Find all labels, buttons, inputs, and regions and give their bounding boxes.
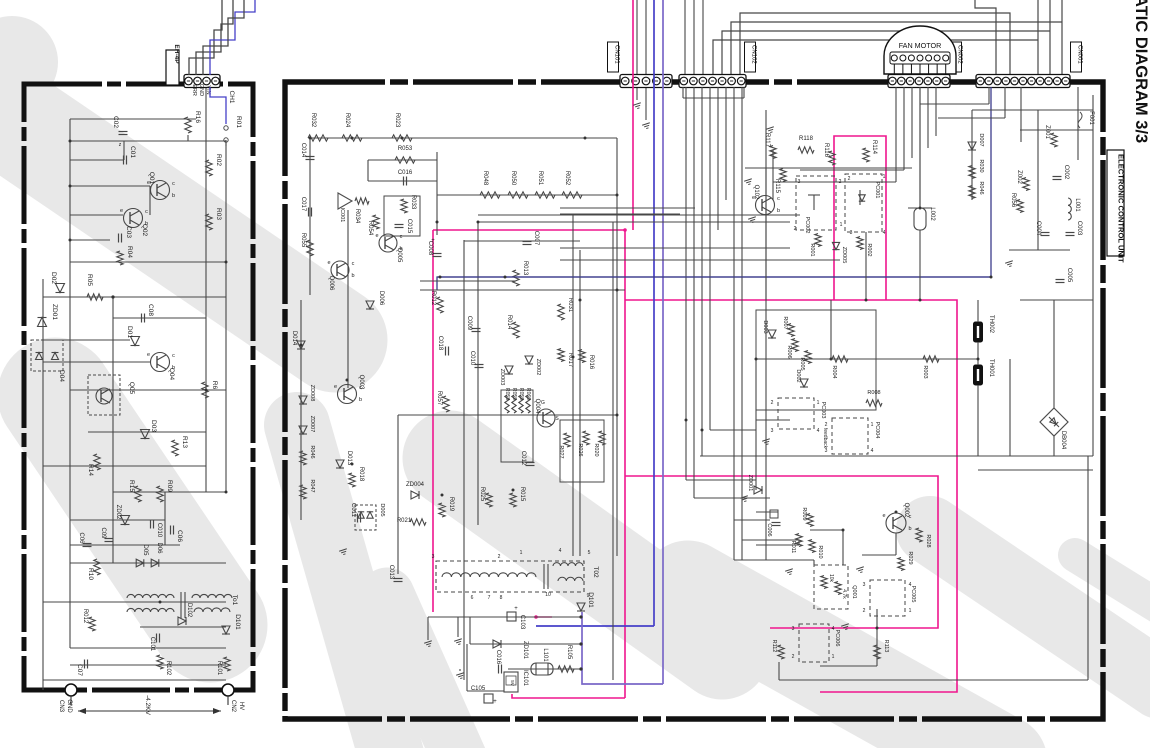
svg-text:Q02: Q02	[141, 224, 148, 237]
svg-text:PC005: PC005	[910, 586, 916, 603]
svg-text:4: 4	[559, 548, 562, 554]
svg-text:R008: R008	[867, 390, 880, 396]
svg-text:D04: D04	[58, 370, 65, 382]
svg-text:C013: C013	[388, 565, 394, 580]
svg-text:R017: R017	[567, 353, 573, 368]
svg-text:R04: R04	[126, 246, 133, 258]
svg-text:10k: 10k	[828, 574, 834, 583]
svg-text:c: c	[400, 234, 403, 240]
svg-text:TH001: TH001	[988, 359, 994, 378]
svg-text:ERR: ERR	[191, 84, 197, 96]
svg-text:C07: C07	[76, 664, 83, 676]
svg-text:feedback: feedback	[822, 428, 828, 449]
svg-text:C014: C014	[300, 143, 306, 158]
svg-text:R011: R011	[790, 541, 796, 554]
svg-text:C103: C103	[519, 615, 525, 630]
svg-text:3: 3	[432, 554, 435, 560]
svg-text:b: b	[908, 526, 911, 532]
svg-text:HV: HV	[238, 702, 244, 710]
svg-text:D02: D02	[50, 272, 57, 284]
svg-text:4: 4	[871, 448, 874, 454]
svg-text:PC001: PC001	[874, 182, 880, 199]
svg-text:R028: R028	[925, 534, 931, 547]
svg-text:R009: R009	[801, 507, 807, 520]
svg-text:R046: R046	[309, 445, 315, 458]
svg-text:L002: L002	[929, 207, 935, 221]
svg-text:2: 2	[792, 654, 795, 660]
svg-text:R034: R034	[354, 209, 360, 224]
svg-text:+: +	[514, 606, 518, 612]
svg-text:ATIC DIAGRAM 3/3: ATIC DIAGRAM 3/3	[1132, 0, 1150, 143]
svg-text:R101: R101	[216, 661, 222, 676]
svg-text:R105: R105	[566, 645, 572, 660]
svg-text:CN2: CN2	[230, 700, 236, 713]
svg-text:e: e	[147, 352, 150, 358]
svg-text:C007: C007	[533, 231, 539, 246]
svg-text:CN3: CN3	[58, 700, 64, 713]
svg-text:R03: R03	[215, 208, 222, 220]
svg-text:4: 4	[883, 230, 886, 236]
svg-text:C09: C09	[100, 527, 106, 539]
svg-text:D014: D014	[291, 331, 297, 346]
svg-text:D005: D005	[379, 503, 385, 516]
svg-text:R021: R021	[397, 518, 412, 524]
svg-text:ZD007: ZD007	[309, 416, 315, 433]
svg-text:TH002: TH002	[988, 315, 994, 334]
svg-text:c: c	[145, 209, 148, 215]
svg-text:R6: R6	[211, 381, 218, 390]
svg-text:T02: T02	[592, 566, 599, 578]
svg-text:C003: C003	[1076, 221, 1082, 236]
svg-text:C08: C08	[147, 304, 154, 316]
svg-text:R050: R050	[510, 171, 516, 186]
svg-text:3: 3	[850, 230, 853, 236]
svg-text:c: c	[172, 353, 175, 359]
svg-text:6: 6	[471, 595, 474, 601]
svg-text:b: b	[777, 208, 780, 214]
svg-text:L001: L001	[1074, 198, 1080, 212]
svg-text:R003: R003	[922, 365, 928, 378]
svg-text:Q006: Q006	[328, 276, 334, 291]
svg-text:ZD01: ZD01	[51, 304, 58, 320]
svg-text:C02: C02	[112, 116, 119, 128]
svg-text:R16: R16	[194, 111, 201, 123]
svg-text:R030: R030	[978, 159, 984, 172]
svg-text:R057: R057	[436, 391, 442, 406]
svg-text:C010: C010	[156, 523, 162, 538]
svg-text:C018: C018	[437, 336, 443, 351]
svg-text:R14: R14	[87, 464, 94, 476]
svg-text:b: b	[351, 273, 354, 279]
svg-text:1: 1	[520, 550, 523, 556]
svg-text:e: e	[882, 513, 885, 519]
svg-text:PC004: PC004	[874, 422, 880, 439]
svg-text:Q002: Q002	[903, 503, 909, 518]
svg-text:R15: R15	[128, 480, 135, 492]
svg-text:GND: GND	[198, 84, 204, 96]
svg-text:D101: D101	[587, 592, 594, 608]
svg-text:Q001: Q001	[851, 585, 857, 598]
svg-text:R060: R060	[525, 388, 531, 400]
svg-text:R047: R047	[309, 479, 315, 492]
svg-text:Q04: Q04	[168, 368, 175, 381]
svg-text:CH1: CH1	[228, 90, 235, 103]
svg-text:10: 10	[545, 592, 551, 598]
svg-text:R056: R056	[1010, 193, 1016, 208]
svg-text:CN001: CN001	[1077, 45, 1083, 64]
svg-text:3: 3	[792, 626, 795, 632]
svg-text:c: c	[172, 181, 175, 187]
svg-text:-4.2KV: -4.2KV	[144, 695, 151, 716]
svg-text:To1: To1	[231, 595, 238, 606]
svg-text:EH-4P: EH-4P	[173, 44, 180, 64]
svg-text:Q004: Q004	[534, 399, 540, 414]
svg-text:ZD005: ZD005	[841, 247, 847, 264]
svg-text:R025: R025	[479, 487, 485, 502]
svg-text:C009: C009	[466, 316, 472, 331]
svg-text:1: 1	[909, 608, 912, 614]
svg-text:ELECTRONIC CONTROL UNIT: ELECTRONIC CONTROL UNIT	[1117, 154, 1126, 263]
svg-text:R02: R02	[215, 154, 222, 166]
svg-text:c: c	[777, 196, 780, 202]
svg-text:2: 2	[771, 400, 774, 406]
svg-text:R002: R002	[866, 243, 872, 256]
svg-text:D06: D06	[156, 542, 162, 554]
svg-text:C06: C06	[78, 532, 84, 544]
svg-text:1: 1	[871, 422, 874, 428]
svg-text:1: 1	[883, 174, 886, 180]
svg-text:b: b	[359, 397, 362, 403]
svg-text:R001: R001	[809, 243, 815, 256]
svg-text:R10: R10	[87, 568, 94, 580]
svg-text:C002: C002	[1063, 165, 1069, 180]
svg-text:ZD02: ZD02	[115, 505, 121, 520]
svg-text:5V: 5V	[510, 680, 515, 686]
svg-text:2: 2	[498, 554, 501, 560]
svg-text:D03: D03	[150, 420, 157, 432]
svg-text:e: e	[327, 260, 330, 266]
svg-text:R13: R13	[181, 436, 188, 448]
svg-text:R015: R015	[519, 487, 525, 502]
svg-text:R024: R024	[344, 113, 350, 128]
svg-text:C006: C006	[766, 523, 772, 536]
svg-text:R019: R019	[448, 497, 454, 512]
svg-text:e: e	[334, 384, 337, 390]
svg-text:R020: R020	[593, 443, 599, 456]
svg-text:Z001: Z001	[1044, 125, 1050, 139]
svg-text:2: 2	[848, 176, 851, 182]
svg-text:ZD004: ZD004	[406, 482, 425, 488]
svg-text:R012: R012	[82, 609, 88, 624]
svg-text:C01: C01	[129, 146, 136, 158]
svg-text:e: e	[120, 208, 123, 214]
svg-text:Q102: Q102	[753, 185, 759, 200]
svg-text:D101: D101	[234, 614, 241, 630]
svg-text:PC006: PC006	[834, 630, 840, 647]
svg-text:3: 3	[798, 179, 801, 185]
svg-text:7: 7	[488, 595, 491, 601]
svg-text:+: +	[431, 238, 435, 244]
svg-text:2: 2	[825, 422, 828, 428]
svg-text:2: 2	[794, 226, 797, 232]
svg-text:C016: C016	[495, 650, 501, 665]
svg-text:e: e	[375, 233, 378, 239]
svg-text:R116: R116	[823, 143, 829, 158]
svg-text:C010: C010	[469, 351, 475, 366]
svg-text:C005: C005	[1066, 268, 1072, 283]
svg-text:R054: R054	[367, 221, 373, 236]
svg-text:R004: R004	[831, 365, 837, 378]
svg-text:D003: D003	[762, 320, 768, 333]
svg-text:PC003: PC003	[820, 402, 826, 419]
svg-text:R117: R117	[764, 133, 770, 148]
svg-text:R014: R014	[506, 315, 512, 330]
svg-text:R053: R053	[398, 146, 413, 152]
svg-text:CN102: CN102	[751, 45, 757, 64]
svg-text:C101: C101	[149, 637, 155, 652]
svg-text:R052: R052	[564, 171, 570, 186]
svg-text:C016: C016	[398, 170, 413, 176]
svg-text:L101: L101	[542, 648, 548, 662]
svg-text:R09: R09	[166, 480, 173, 492]
svg-text:2: 2	[839, 179, 842, 185]
svg-text:Q003: Q003	[358, 375, 364, 390]
svg-text:R059: R059	[518, 388, 524, 400]
svg-text:D01: D01	[126, 326, 133, 338]
svg-text:R031: R031	[567, 298, 573, 313]
svg-text:D006: D006	[378, 291, 384, 306]
svg-text:Z002: Z002	[1016, 170, 1022, 184]
svg-text:R023: R023	[394, 113, 400, 128]
svg-text:R012: R012	[430, 291, 436, 306]
svg-text:2: 2	[863, 608, 866, 614]
svg-text:R112: R112	[771, 640, 777, 653]
svg-text:R118: R118	[799, 136, 814, 142]
svg-text:R029: R029	[907, 551, 913, 564]
svg-text:R007: R007	[782, 316, 788, 329]
svg-text:3: 3	[825, 448, 828, 454]
svg-text:ZD008: ZD008	[309, 385, 315, 402]
svg-text:R016: R016	[588, 355, 594, 370]
svg-text:DB004: DB004	[1060, 431, 1066, 450]
svg-text:R048: R048	[482, 171, 488, 186]
svg-text:CN002: CN002	[957, 45, 963, 64]
svg-text:Q05: Q05	[128, 382, 135, 395]
svg-text:R046: R046	[978, 181, 984, 194]
svg-text:R027: R027	[558, 445, 564, 458]
svg-text:C015: C015	[406, 219, 412, 234]
svg-text:D007: D007	[978, 133, 984, 146]
svg-text:C017: C017	[300, 197, 306, 212]
svg-text:R055: R055	[300, 233, 306, 248]
svg-text:R059: R059	[511, 388, 517, 400]
svg-text:D05: D05	[142, 544, 148, 556]
svg-text:b: b	[172, 193, 175, 199]
svg-text:3: 3	[863, 582, 866, 588]
svg-text:4: 4	[817, 428, 820, 434]
svg-text:5: 5	[588, 550, 591, 556]
svg-text:4.7k: 4.7k	[841, 589, 847, 599]
svg-text:8: 8	[500, 595, 503, 601]
svg-text:R113: R113	[883, 640, 889, 653]
svg-text:Q005: Q005	[396, 248, 402, 263]
svg-text:R115: R115	[774, 179, 780, 194]
svg-text:R05: R05	[86, 274, 93, 286]
svg-text:ZD002: ZD002	[535, 359, 541, 376]
svg-text:D002: D002	[795, 369, 801, 382]
svg-text:R01: R01	[235, 116, 242, 128]
svg-text:PC002: PC002	[804, 217, 810, 234]
svg-text:1: 1	[817, 400, 820, 406]
svg-text:1: 1	[832, 654, 835, 660]
svg-text:C06: C06	[176, 530, 183, 542]
svg-text:G: G	[541, 400, 545, 406]
svg-text:D102: D102	[186, 603, 192, 618]
svg-text:3: 3	[771, 428, 774, 434]
svg-text:R032: R032	[310, 113, 316, 128]
svg-text:R114: R114	[871, 140, 877, 155]
svg-text:+: +	[493, 699, 497, 705]
svg-text:R018: R018	[358, 467, 364, 482]
svg-text:IC101: IC101	[522, 670, 528, 687]
svg-text:Q01: Q01	[148, 172, 155, 185]
svg-text:ZD003: ZD003	[499, 369, 505, 386]
svg-text:R010: R010	[817, 545, 823, 558]
svg-text:C03: C03	[125, 226, 132, 238]
svg-text:R033: R033	[410, 195, 416, 210]
svg-text:c: c	[352, 261, 355, 267]
svg-text:R102: R102	[165, 661, 171, 676]
svg-text:ZD001: ZD001	[747, 475, 753, 492]
svg-text:CN101: CN101	[614, 45, 620, 64]
svg-text:R013: R013	[522, 261, 528, 276]
svg-text:R058: R058	[504, 388, 510, 400]
svg-text:R051: R051	[537, 171, 543, 186]
svg-text:C012: C012	[520, 451, 526, 466]
svg-text:R006: R006	[786, 345, 792, 358]
svg-text:IC001: IC001	[339, 208, 345, 223]
svg-text:FAN MOTOR: FAN MOTOR	[899, 41, 942, 50]
svg-text:1: 1	[840, 222, 843, 228]
